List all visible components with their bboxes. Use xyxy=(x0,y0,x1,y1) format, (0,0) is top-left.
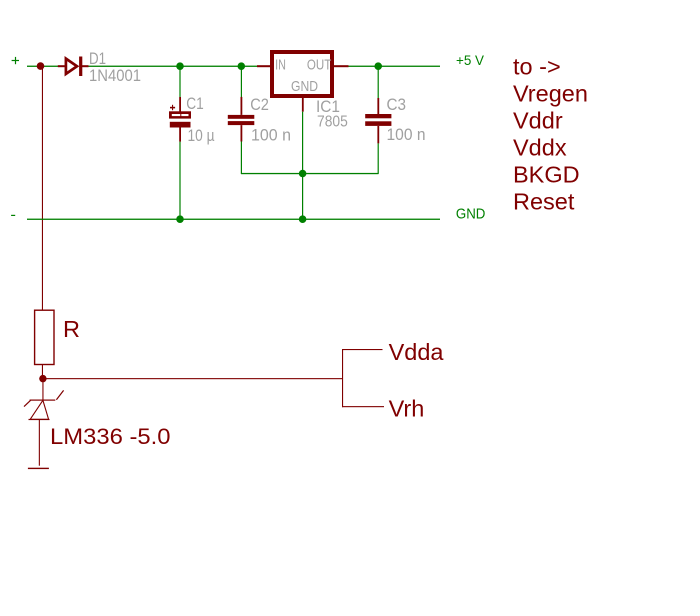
wire top rail middle segment xyxy=(89,66,258,67)
svg-text:GND: GND xyxy=(456,206,486,223)
svg-text:GND: GND xyxy=(291,79,318,95)
wire IN pin red stub xyxy=(257,65,270,67)
svg-text:OUT: OUT xyxy=(307,57,331,74)
node junction dot C1 bottom on rail xyxy=(176,215,184,223)
wire bracket bottom stub to Vrh xyxy=(342,406,384,407)
svg-text:Vddr: Vddr xyxy=(513,107,563,133)
node junction dot GND branch on rail xyxy=(299,215,307,223)
svg-text:C1: C1 xyxy=(186,95,204,113)
svg-text:LM336 -5.0: LM336 -5.0 xyxy=(50,424,171,449)
node + (plus terminal label) xyxy=(12,57,19,64)
svg-text:to ->: to -> xyxy=(513,54,561,80)
svg-text:C2: C2 xyxy=(250,96,269,114)
IC IC1 7805 voltage regulator box xyxy=(272,52,332,96)
svg-text:Vrh: Vrh xyxy=(389,395,425,421)
svg-text:100 n: 100 n xyxy=(251,127,291,145)
svg-text:10 µ: 10 µ xyxy=(188,127,215,145)
svg-text:Reset: Reset xyxy=(513,188,575,214)
wire top rail right segment xyxy=(349,66,441,67)
node junction dot at (302.6,173.5) xyxy=(299,170,307,178)
diode D1 xyxy=(58,57,89,77)
node junction dot at (43,378.5) xyxy=(39,375,46,382)
capacitor C1 xyxy=(169,66,191,219)
svg-text:Vregen: Vregen xyxy=(513,80,588,106)
wire GND pin red stub of IC1 xyxy=(302,98,304,112)
wire red from R bottom to junction xyxy=(42,365,43,379)
wire vertical red net from top junction down to R xyxy=(42,66,43,310)
wire red from junction down to zener xyxy=(42,379,43,400)
wire bracket top stub to Vdda xyxy=(342,349,383,350)
wire top rail left segment xyxy=(27,66,58,67)
svg-text:+5 V: +5 V xyxy=(456,53,484,68)
node junction dot C1 top (180,66) xyxy=(176,62,184,70)
wire horizontal connector C2-GND-C3 at y=173.5 xyxy=(241,173,379,174)
wire horizontal red net to bracket xyxy=(43,378,343,379)
svg-text:Vdda: Vdda xyxy=(389,339,445,365)
resistor R xyxy=(35,310,54,364)
capacitor C3 xyxy=(365,66,391,174)
wire ground rail xyxy=(27,219,440,220)
svg-text:100 n: 100 n xyxy=(387,126,426,144)
svg-text:IN: IN xyxy=(275,57,286,74)
node - (minus terminal label) xyxy=(11,215,15,216)
wire bracket vertical xyxy=(342,349,343,407)
svg-text:BKGD: BKGD xyxy=(513,161,580,187)
node junction dot C2 top (241.5,66) xyxy=(238,62,246,70)
capacitor C2 xyxy=(228,66,255,174)
wire vertical from IC1 GND pin to ground rail xyxy=(302,112,303,220)
ground symbol xyxy=(28,468,49,469)
node junction dot C3 top (378,66) xyxy=(374,62,382,70)
svg-text:R: R xyxy=(63,316,80,342)
svg-text:1N4001: 1N4001 xyxy=(89,66,141,85)
svg-text:Vddx: Vddx xyxy=(513,134,567,160)
node junction dot at (40.5,66) xyxy=(37,62,45,70)
svg-text:7805: 7805 xyxy=(317,113,348,130)
diode zener LM336 xyxy=(24,390,64,465)
wire OUT pin red stub xyxy=(334,65,349,67)
svg-text:C3: C3 xyxy=(387,96,407,114)
